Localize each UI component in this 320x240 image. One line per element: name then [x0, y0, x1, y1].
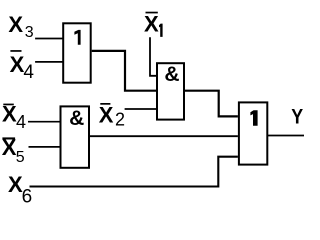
U1 label 1 [74, 30, 80, 45]
wire X4bar to U3 [28, 121, 61, 123]
label X4bar (top) [10, 50, 21, 52]
svg-text:5: 5 [16, 149, 25, 166]
label X4bar (bottom) [3, 104, 14, 106]
wire U2 output to U4 input [185, 91, 238, 117]
svg-text:X: X [8, 12, 23, 37]
label X1bar [146, 12, 158, 14]
wire U1 output to U2 input [92, 51, 156, 91]
wire X3 to U1 [35, 38, 63, 40]
wire X1bar to U2 [150, 37, 157, 76]
svg-text:Y: Y [291, 105, 303, 129]
AND gate U2 [157, 63, 184, 119]
wire X4bar to U1 [35, 61, 63, 63]
label X5bar [2, 137, 15, 139]
svg-text:X: X [10, 52, 25, 77]
OR gate U1 [63, 23, 90, 82]
AND gate U3 [61, 106, 90, 167]
svg-text:4: 4 [16, 112, 26, 132]
svg-text:X: X [2, 135, 17, 160]
svg-text:4: 4 [23, 62, 34, 83]
svg-text:2: 2 [115, 109, 125, 129]
wire X2bar to U2 [125, 108, 157, 110]
svg-text:&: & [164, 63, 179, 86]
OR gate U4 [239, 102, 267, 164]
svg-text:X: X [99, 102, 114, 127]
svg-text:3: 3 [25, 24, 34, 41]
wire X5bar to U3 [29, 146, 61, 148]
wire U4 output Y [267, 135, 304, 137]
svg-text:&: & [69, 107, 84, 130]
U4 label 1 [250, 110, 257, 125]
label X2bar [100, 103, 110, 105]
wire U3 output to U4 input [90, 135, 238, 137]
wire X6 to U4 [30, 157, 238, 187]
svg-text:X: X [144, 11, 159, 36]
svg-text:6: 6 [22, 186, 33, 203]
svg-text:X: X [2, 101, 17, 126]
